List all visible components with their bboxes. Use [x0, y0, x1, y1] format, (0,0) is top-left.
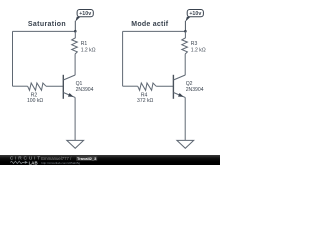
resistor R1	[72, 31, 96, 54]
svg-text:100 kΩ: 100 kΩ	[27, 98, 43, 104]
transistor Q2 (2N3904 NPN)	[173, 75, 203, 99]
svg-text:+10v: +10v	[79, 11, 91, 17]
svg-text:http://circuitlab.com/c65abt5g: http://circuitlab.com/c65abt5g	[41, 161, 80, 165]
ground (right)	[177, 140, 194, 148]
wire: R3 to Q2 collector	[184, 54, 186, 75]
power supply +10v (left)	[75, 10, 93, 32]
svg-text:1.2 kΩ: 1.2 kΩ	[191, 47, 206, 53]
transistor Q1 (2N3904 NPN)	[63, 75, 93, 99]
svg-text:Mode actif: Mode actif	[131, 21, 168, 28]
wire: left loop left vertical	[12, 31, 14, 86]
wire: right loop left vertical	[122, 31, 124, 86]
wire: left loop top horizontal	[13, 30, 76, 32]
svg-text:LAB: LAB	[29, 160, 38, 165]
resistor R2	[27, 83, 46, 104]
wire: right loop top horizontal	[123, 30, 186, 32]
wire: right loop bottom to R4	[123, 85, 138, 87]
CircuitLab logo	[10, 156, 42, 166]
svg-text:2N3904: 2N3904	[76, 87, 94, 93]
wire: R1 to Q1 collector	[74, 54, 76, 75]
svg-text:2N3904: 2N3904	[186, 87, 204, 93]
svg-text:372 kΩ: 372 kΩ	[137, 98, 153, 104]
wire: R2 to Q1 base	[46, 85, 63, 87]
node: junction J1	[74, 30, 77, 33]
footer text: user / project	[41, 156, 97, 161]
node: junction J2	[184, 30, 187, 33]
svg-text:R1: R1	[81, 41, 88, 47]
ground (left)	[67, 140, 84, 148]
wire: Q1 emitter down	[74, 97, 76, 140]
resistor R4	[137, 83, 156, 104]
svg-text:Saturation: Saturation	[28, 21, 66, 28]
footer bar	[0, 155, 220, 165]
wire: left loop bottom to R2	[13, 85, 28, 87]
wire: R4 to Q2 base	[156, 85, 173, 87]
wire: Q2 emitter down	[184, 97, 186, 140]
resistor R3	[182, 31, 206, 54]
svg-text:R3: R3	[191, 41, 198, 47]
svg-text:+10v: +10v	[189, 11, 201, 17]
power supply +10v (right)	[185, 10, 203, 32]
svg-text:1.2 kΩ: 1.2 kΩ	[81, 47, 96, 53]
